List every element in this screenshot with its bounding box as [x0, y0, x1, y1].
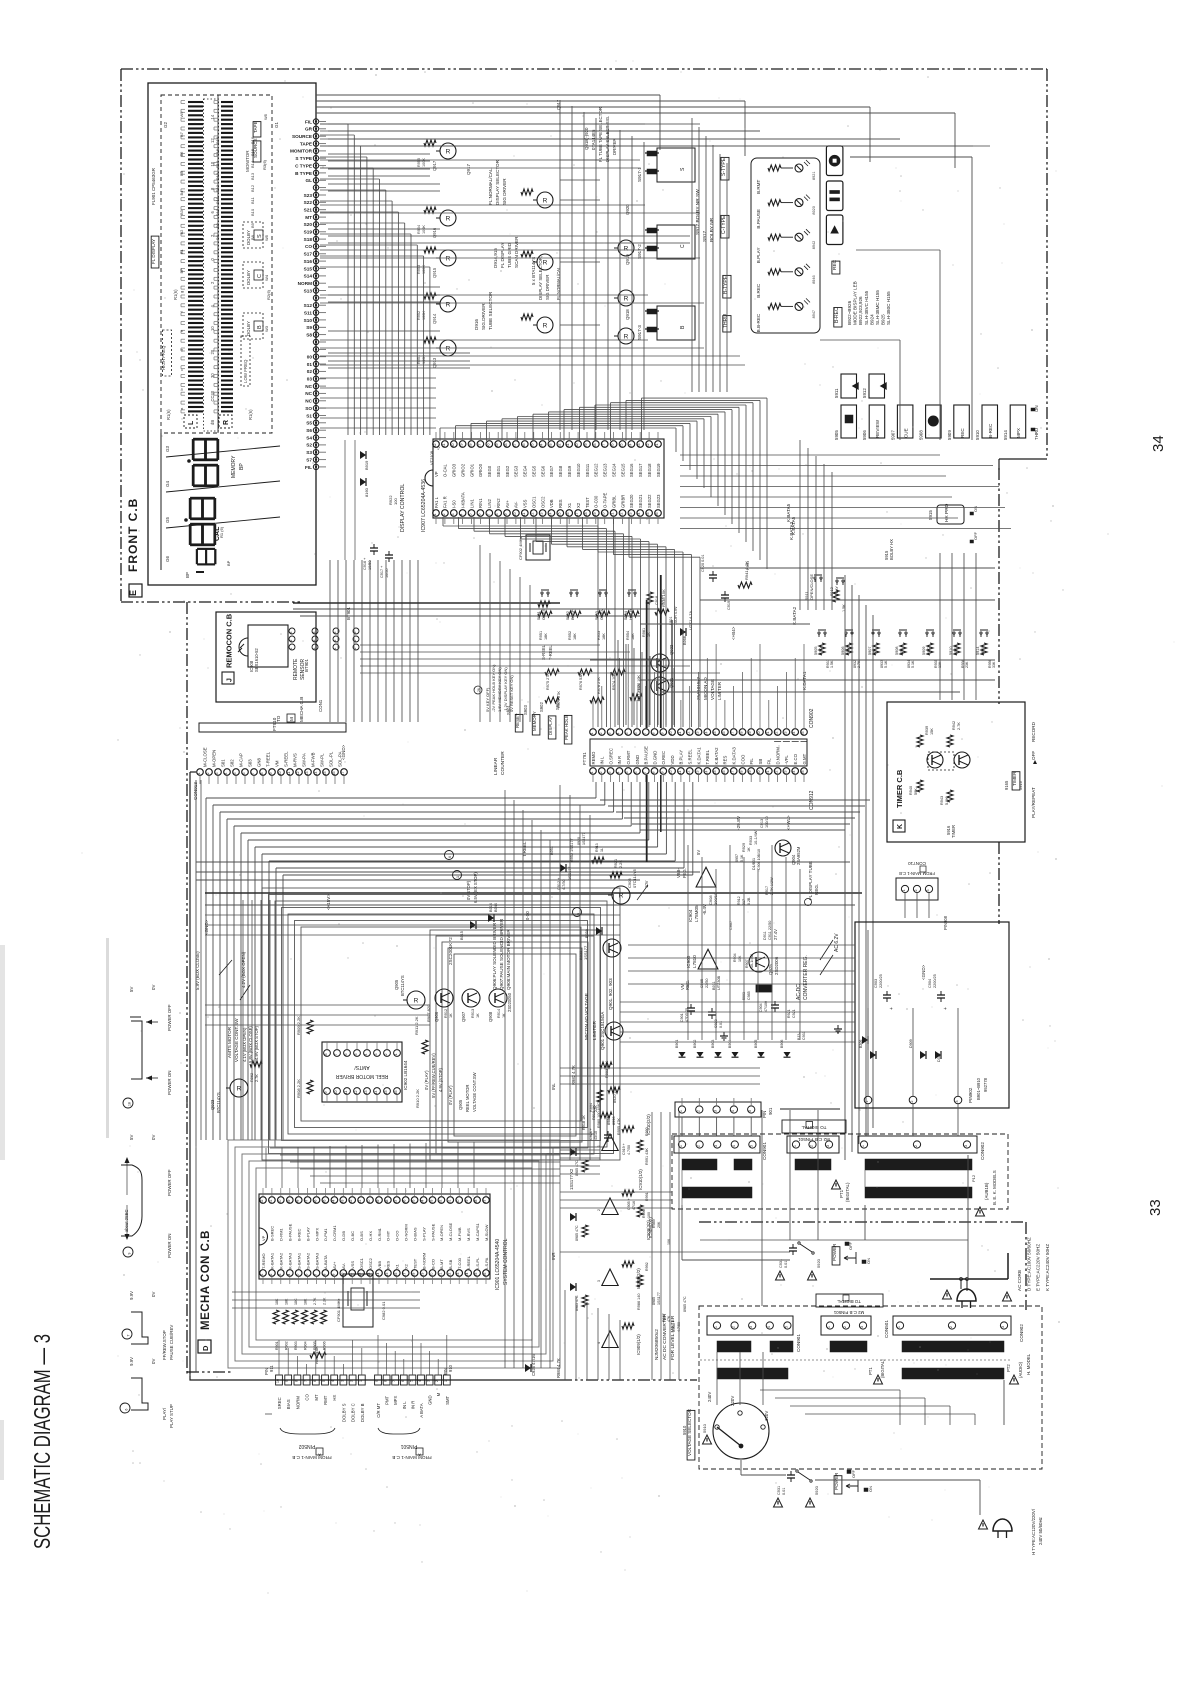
svg-text:1SS177: 1SS177 [583, 945, 588, 960]
svg-text:17: 17 [731, 732, 735, 736]
svg-text:1K: 1K [449, 1013, 453, 1018]
svg-text:23: 23 [783, 732, 787, 736]
svg-text:GND: GND [428, 1395, 433, 1405]
svg-text:D1/B01: D1/B01 [752, 858, 756, 870]
svg-text:2: 2 [206, 773, 210, 775]
svg-text:W9: W9 [179, 111, 184, 118]
svg-text:PT2: PT2 [1006, 1364, 1011, 1372]
svg-text:K.BATA2: K.BATA2 [792, 606, 797, 625]
svg-text:0.01: 0.01 [784, 1261, 788, 1268]
svg-text:M-CAPS1: M-CAPS1 [475, 1222, 480, 1241]
svg-text:R919 1K: R919 1K [592, 1105, 596, 1120]
svg-text:VSS: VSS [523, 499, 528, 508]
svg-text:R: R [624, 296, 629, 303]
svg-text:9: 9 [504, 514, 508, 516]
svg-text:3: 3 [860, 1326, 864, 1328]
svg-text:14: 14 [314, 772, 318, 776]
svg-text:2.2K: 2.2K [323, 1297, 327, 1305]
svg-text:ON: ON [868, 1486, 873, 1492]
svg-text:SIG.DRIVER: SIG.DRIVER [481, 303, 486, 330]
svg-text:R903 10K: R903 10K [605, 1061, 609, 1078]
svg-text:B906: B906 [780, 1040, 784, 1048]
svg-text:R984 4.7K: R984 4.7K [556, 1358, 561, 1378]
svg-text:8: 8 [260, 773, 264, 775]
svg-text:POWER: POWER [832, 1243, 837, 1261]
svg-text:MT: MT [314, 1394, 319, 1401]
svg-text:K.BATA3: K.BATA3 [789, 521, 794, 540]
svg-text:220V: 220V [730, 1396, 735, 1406]
svg-text:Q906:PLAY SOLENOID BRIVER: Q906:PLAY SOLENOID BRIVER [492, 922, 497, 990]
svg-text:IN L: IN L [402, 1401, 407, 1409]
svg-text:A: A [418, 1453, 421, 1458]
svg-text:SEG13: SEG13 [603, 463, 608, 477]
svg-text:46: 46 [314, 1200, 318, 1204]
svg-text:S22: S22 [304, 200, 313, 205]
svg-text:18: 18 [128, 1102, 132, 1106]
svg-text:C921: C921 [792, 1009, 796, 1018]
svg-text:5914: 5914 [1003, 430, 1008, 440]
svg-text:PLAY/: PLAY/ [162, 1407, 167, 1420]
svg-text:4: 4 [224, 773, 228, 775]
svg-text:OSC2: OSC2 [540, 496, 545, 508]
svg-text:42: 42 [349, 1200, 353, 1204]
svg-text:O-BIAS: O-BIAS [412, 1227, 417, 1241]
svg-text:1: 1 [444, 1380, 448, 1382]
svg-text:MECHA C.B: MECHA C.B [299, 697, 304, 722]
svg-text:25: 25 [646, 513, 650, 517]
svg-text:5914: 5914 [976, 647, 980, 655]
svg-text:0V: 0V [151, 1135, 156, 1140]
svg-text:S-BATA1: S-BATA1 [297, 1252, 302, 1269]
svg-text:TAPE: TAPE [300, 141, 312, 146]
svg-text:FL DISPLAY: FL DISPLAY [500, 242, 505, 268]
svg-text:M-RVS: M-RVS [466, 1228, 471, 1241]
svg-text:FROM MAIN-1 C.B: FROM MAIN-1 C.B [899, 871, 935, 876]
svg-text:G6: G6 [165, 555, 170, 562]
svg-text:VM: VM [274, 760, 279, 767]
svg-text:7: 7 [314, 1273, 318, 1275]
svg-text:1S5177: 1S5177 [582, 833, 586, 845]
svg-text:SEG23: SEG23 [656, 494, 661, 508]
svg-text:13: 13 [305, 772, 309, 776]
svg-text:R: R [543, 260, 548, 267]
svg-text:R: R [414, 998, 419, 1005]
svg-text:B.PAUSE: B.PAUSE [756, 209, 761, 229]
svg-text:SEG22: SEG22 [647, 494, 652, 508]
svg-text:11: 11 [678, 771, 682, 775]
svg-text:REC: REC [960, 428, 965, 438]
svg-text:C908 +: C908 + [672, 1320, 676, 1332]
svg-text:13: 13 [696, 771, 700, 775]
svg-text:S-TYPE: S-TYPE [721, 157, 727, 176]
svg-text:29: 29 [465, 1200, 469, 1204]
svg-text:1: 1 [861, 1145, 865, 1147]
svg-text:20: 20 [210, 349, 215, 354]
svg-text:40: 40 [367, 1200, 371, 1204]
svg-text:IC902 LB1644: IC902 LB1644 [403, 1060, 408, 1090]
svg-text:5916: 5916 [1018, 780, 1023, 790]
svg-text:18: 18 [584, 513, 588, 517]
svg-text:8920: 8920 [812, 206, 816, 214]
svg-text:2: 2 [696, 1110, 700, 1112]
svg-text:SLH-380C H155: SLH-380C H155 [886, 291, 891, 325]
svg-text:40: 40 [486, 444, 490, 448]
svg-text:S11: S11 [304, 310, 312, 315]
svg-text:2SC2001K *2: 2SC2001K *2 [448, 937, 453, 965]
svg-text:R991 43K: R991 43K [645, 1148, 649, 1165]
svg-text:S8: S8 [306, 332, 312, 337]
svg-text:DOLBY C: DOLBY C [351, 1403, 356, 1422]
svg-text:COO: COO [740, 754, 745, 764]
svg-text:BT901: BT901 [346, 607, 351, 620]
svg-text:(BIGITAL): (BIGITAL) [880, 1359, 885, 1378]
svg-text:BIAS: BIAS [286, 1399, 291, 1409]
svg-text:RIN1: RIN1 [478, 498, 483, 508]
svg-text:D310: D310 [937, 1053, 941, 1062]
svg-text:B904: B904 [728, 1040, 732, 1048]
svg-text:MODE BISPLAY LEB: MODE BISPLAY LEB [853, 281, 858, 325]
svg-text:B-SREC: B-SREC [270, 1226, 275, 1241]
svg-text:CONVERTER REG.: CONVERTER REG. [803, 955, 809, 1000]
svg-text:18K: 18K [304, 1298, 308, 1305]
svg-text:GND: GND [635, 755, 640, 765]
svg-text:B9: B9 [215, 222, 220, 228]
svg-text:3: 3 [1001, 1326, 1005, 1328]
svg-text:AMTS/: AMTS/ [354, 1064, 370, 1070]
svg-text:14: 14 [704, 771, 708, 775]
svg-text:CF901 4MHz: CF901 4MHz [336, 1298, 341, 1322]
svg-text:GRIBR: GRIBR [620, 495, 625, 508]
svg-text:4.9V (BOX STOP): 4.9V (BOX STOP) [254, 1025, 259, 1060]
svg-text:47/16: 47/16 [632, 1201, 636, 1210]
svg-text:IN R: IN R [617, 756, 622, 765]
svg-text:5912: 5912 [862, 388, 867, 398]
svg-text:CO: CO [305, 244, 312, 249]
svg-text:B16: B16 [215, 136, 220, 144]
svg-text:G.MT: G.MT [802, 753, 807, 764]
svg-text:CON902: CON902 [1019, 1324, 1024, 1342]
svg-text:SEG14: SEG14 [611, 463, 616, 477]
svg-text:2: 2 [333, 639, 337, 641]
svg-text:5: 5 [749, 1145, 753, 1147]
svg-text:0TC114Y5: 0TC114Y5 [632, 868, 637, 888]
svg-text:VDB: VDB [549, 499, 554, 508]
svg-text:2S020050: 2S020050 [507, 992, 512, 1012]
svg-text:C918: C918 [655, 596, 659, 605]
svg-text:0.01: 0.01 [782, 1488, 786, 1495]
svg-text:38: 38 [385, 1200, 389, 1204]
svg-text:DOLBY S: DOLBY S [341, 1403, 346, 1422]
svg-text:(AUDIO): (AUDIO) [1018, 1361, 1023, 1378]
svg-text:Q907: Q907 [461, 1011, 466, 1022]
svg-text:27: 27 [477, 444, 481, 448]
svg-text:S-BATA3: S-BATA3 [314, 1252, 319, 1269]
svg-text:BOLBY NR: BOLBY NR [709, 217, 715, 242]
svg-text:2: 2 [910, 1100, 914, 1102]
svg-text:S-BATA2: S-BATA2 [305, 1252, 310, 1269]
svg-text:LIMITER: LIMITER [717, 681, 722, 700]
svg-text:8985 47C: 8985 47C [575, 1225, 579, 1241]
svg-text:18K: 18K [602, 633, 606, 640]
svg-text:O-MPX: O-MPX [314, 1228, 319, 1241]
svg-text:C901: C901 [680, 1013, 684, 1022]
svg-text:1: 1 [197, 773, 201, 775]
svg-text:16: 16 [394, 1091, 398, 1095]
svg-text:R910 2.2K: R910 2.2K [415, 1089, 420, 1108]
svg-text:A BATA: A BATA [419, 1403, 424, 1418]
svg-text:1: 1 [902, 890, 906, 892]
svg-text:19: 19 [593, 513, 597, 517]
svg-text:K TYPE:AC240V 50HZ: K TYPE:AC240V 50HZ [1045, 1244, 1050, 1291]
svg-text:2: 2 [949, 1326, 953, 1328]
svg-text:1: 1 [433, 514, 437, 516]
svg-text:20: 20 [757, 771, 761, 775]
svg-text:Q917: Q917 [432, 160, 437, 171]
svg-text:Q901. 902. 903: Q901. 902. 903 [608, 978, 613, 1010]
svg-text:R951: R951 [539, 631, 543, 640]
svg-text:12: 12 [354, 1091, 358, 1095]
svg-text:12: 12 [531, 513, 535, 517]
svg-text:<+B4>: <+B4> [731, 626, 736, 640]
svg-text:36: 36 [403, 1200, 407, 1204]
svg-text:SMT: SMT [445, 1395, 450, 1404]
svg-text:M-SLOW: M-SLOW [484, 1224, 489, 1241]
svg-text:SCAN DRIVER: SCAN DRIVER [514, 236, 519, 268]
svg-text:8985 47C: 8985 47C [683, 1296, 687, 1312]
svg-text:R986 140: R986 140 [637, 1294, 641, 1310]
svg-text:47/100: 47/100 [764, 1001, 768, 1012]
svg-text:8: 8 [652, 733, 656, 735]
svg-text:B TYPE: B TYPE [295, 171, 312, 176]
svg-text:IN R: IN R [410, 1401, 415, 1410]
svg-text:8160: 8160 [364, 487, 369, 497]
svg-text:-2V PEAK HOLB KEY ON): -2V PEAK HOLB KEY ON) [491, 664, 496, 712]
svg-text:5: 5 [296, 1273, 300, 1275]
svg-text:952778: 952778 [983, 1077, 988, 1092]
svg-text:100: 100 [393, 498, 398, 505]
svg-text:O.SREC: O.SREC [608, 748, 613, 764]
svg-text:CON710: CON710 [908, 861, 926, 866]
svg-text:+: + [943, 1007, 949, 1010]
svg-text:12: 12 [687, 732, 691, 736]
svg-text:Q913: Q913 [432, 357, 437, 368]
svg-text:LIN2: LIN2 [487, 498, 492, 508]
svg-text:CUE: CUE [903, 428, 908, 438]
svg-text:about 2SEC: about 2SEC [124, 1209, 129, 1232]
svg-text:5V: 5V [696, 850, 701, 855]
svg-text:B901~B910: B901~B910 [976, 1077, 981, 1100]
svg-text:11: 11 [678, 732, 682, 736]
svg-text:I-REEL: I-REEL [466, 1255, 471, 1269]
svg-text:B968: B968 [683, 636, 687, 645]
svg-text:NORM: NORM [298, 281, 312, 286]
svg-text:59K: 59K [914, 788, 918, 795]
svg-text:REMOCON C.B: REMOCON C.B [225, 613, 234, 668]
svg-text:MONITOR: MONITOR [245, 150, 250, 172]
svg-text:18K: 18K [573, 633, 577, 640]
svg-text:28: 28 [469, 444, 473, 448]
svg-text:3: 3 [333, 631, 337, 633]
svg-text:2: 2 [289, 639, 293, 641]
svg-text:C TYPE: C TYPE [295, 163, 312, 168]
svg-text:S23: S23 [304, 193, 313, 198]
svg-text:FRONT C.B: FRONT C.B [126, 498, 140, 572]
svg-text:22: 22 [775, 771, 779, 775]
svg-text:00: 00 [307, 355, 313, 360]
svg-text:TUBE GRID: TUBE GRID [507, 242, 512, 268]
svg-text:S21: S21 [304, 208, 313, 213]
svg-text:BP: BP [179, 268, 184, 274]
svg-text:S-PLAY: S-PLAY [421, 1227, 426, 1241]
svg-text:5908: 5908 [919, 430, 924, 440]
svg-text:FA1 L: FA1 L [434, 496, 439, 508]
svg-text:43: 43 [340, 1200, 344, 1204]
svg-text:LIMITER: LIMITER [592, 1021, 598, 1040]
svg-text:18K: 18K [285, 1298, 289, 1305]
svg-text:R1(6): R1(6) [166, 409, 171, 420]
svg-text:S12: S12 [304, 303, 313, 308]
svg-text:8996: 8996 [612, 1117, 616, 1125]
svg-text:2: 2 [697, 1145, 701, 1147]
svg-text:9165: 9165 [1004, 780, 1009, 790]
svg-text:c: c [179, 369, 184, 371]
svg-text:OFF: OFF [1031, 751, 1036, 760]
svg-text:O-C00: O-C00 [594, 495, 599, 508]
svg-text:2.7K: 2.7K [313, 1297, 317, 1305]
svg-text:M-CLOSE: M-CLOSE [448, 1222, 453, 1241]
svg-text:B10: B10 [215, 208, 220, 216]
svg-text:PIN502: PIN502 [298, 1443, 315, 1449]
svg-text:27: 27 [602, 444, 606, 448]
svg-text:SEG18: SEG18 [647, 463, 652, 477]
svg-text:SEG2: SEG2 [505, 465, 510, 477]
svg-text:M-FWB: M-FWB [310, 752, 315, 767]
svg-text:1: 1 [260, 1273, 264, 1275]
svg-text:MECHA CON C.B: MECHA CON C.B [200, 1230, 212, 1330]
svg-text:8: 8 [322, 1273, 326, 1275]
svg-text:44: 44 [331, 1200, 335, 1204]
svg-text:31: 31 [442, 444, 446, 448]
svg-text:3: 3 [427, 1380, 431, 1382]
svg-text:R2(6): R2(6) [266, 289, 271, 300]
svg-text:SOURCE: SOURCE [292, 134, 312, 139]
svg-text:R: R [446, 302, 451, 309]
svg-text:22/50: 22/50 [705, 978, 709, 988]
svg-text:17: 17 [575, 513, 579, 517]
svg-text:26: 26 [483, 1273, 487, 1277]
svg-text:SEG6: SEG6 [540, 465, 545, 477]
svg-text:PIN: PIN [762, 1111, 767, 1118]
svg-text:1.5K: 1.5K [830, 660, 834, 668]
svg-text:5V (FF/REW,CUE/REV): 5V (FF/REW,CUE/REV) [431, 1053, 436, 1098]
svg-text:21: 21 [766, 771, 770, 775]
svg-text:K.DATA1: K.DATA1 [696, 747, 701, 765]
svg-text:FL DISPLAY TUBE: FL DISPLAY TUBE [808, 861, 813, 900]
svg-text:VDD: VDD [670, 755, 675, 764]
svg-text:FROM MAIN-1 C.B: FROM MAIN-1 C.B [292, 1455, 331, 1460]
svg-text:8921: 8921 [812, 172, 816, 180]
svg-text:2SD2006: 2SD2006 [774, 956, 779, 975]
svg-text:R: R [223, 420, 230, 425]
svg-text:DISPLAY CONTROL: DISPLAY CONTROL [400, 484, 406, 532]
svg-text:SEG5: SEG5 [532, 465, 537, 477]
svg-text:0TA144E5: 0TA144E5 [591, 129, 596, 150]
svg-text:34: 34 [540, 444, 544, 448]
svg-text:VT2108: VT2108 [429, 450, 434, 465]
svg-text:I-S.PA: I-S.PA [484, 1257, 489, 1269]
svg-text:CON913: CON913 [193, 782, 198, 800]
svg-text:B.PLAY: B.PLAY [679, 750, 684, 765]
svg-text:9: 9 [660, 733, 664, 735]
svg-text:B915: B915 [460, 931, 464, 940]
svg-text:S917-2: S917-2 [637, 244, 642, 259]
svg-text:5910: 5910 [702, 1423, 707, 1433]
svg-text:BP: BP [226, 560, 231, 566]
svg-text:10: 10 [669, 771, 673, 775]
svg-text:Q905: Q905 [458, 1099, 463, 1110]
svg-text:1: 1 [865, 1100, 869, 1102]
svg-text:C919 +: C919 + [622, 1143, 626, 1155]
svg-text:IC905: IC905 [686, 955, 691, 968]
svg-text:B-PLAY: B-PLAY [305, 1227, 310, 1241]
svg-text:15: 15 [713, 732, 717, 736]
svg-text:B5: B5 [179, 170, 184, 176]
svg-text:9.9V: 9.9V [129, 1291, 134, 1300]
svg-text:R911 2.2K: R911 2.2K [414, 1016, 419, 1035]
svg-text:GR: GR [305, 127, 313, 132]
svg-text:8: 8 [324, 1054, 328, 1056]
svg-text:13: 13 [540, 513, 544, 517]
svg-text:5907: 5907 [890, 430, 895, 440]
svg-text:R901: R901 [275, 1341, 279, 1350]
svg-text:IC901 LC65204A-4540: IC901 LC65204A-4540 [495, 1239, 501, 1290]
svg-text:18: 18 [740, 732, 744, 736]
svg-text:B-NORM: B-NORM [421, 1253, 426, 1269]
svg-text:OSC1: OSC1 [359, 1257, 364, 1269]
svg-text:Q915: Q915 [432, 267, 437, 278]
svg-text:21: 21 [655, 444, 659, 448]
svg-text:29: 29 [584, 444, 588, 448]
svg-text:FROM MAIN-1 C.B: FROM MAIN-1 C.B [392, 1455, 431, 1460]
svg-text:ON: ON [1034, 405, 1039, 412]
svg-text:B.B-REC: B.B-REC [756, 313, 761, 332]
svg-text:AC CORB: AC CORB [1017, 1270, 1022, 1291]
svg-text:S6: S6 [306, 428, 312, 433]
svg-text:K.DATA1: K.DATA1 [802, 671, 807, 690]
svg-text:P12: P12 [971, 1174, 976, 1182]
svg-text:2.7K: 2.7K [255, 1074, 259, 1082]
svg-text:B14: B14 [215, 160, 220, 168]
svg-text:B11: B11 [215, 196, 220, 204]
svg-text:GRIO3: GRIO3 [452, 463, 457, 477]
svg-text:S917-1: S917-1 [637, 167, 642, 182]
svg-text:47: 47 [305, 1200, 309, 1204]
svg-text:SB: SB [758, 759, 763, 765]
svg-text:R: R [543, 323, 548, 330]
svg-text:1: 1 [394, 1054, 398, 1056]
svg-text:4: 4 [616, 733, 620, 735]
svg-text:R906: R906 [323, 1341, 327, 1350]
svg-text:Q901 2SC1815GA: Q901 2SC1815GA [600, 1011, 605, 1050]
svg-text:B14: B14 [250, 160, 255, 168]
svg-text:M-FWB: M-FWB [457, 1227, 462, 1241]
svg-text:C931: C931 [802, 1031, 806, 1040]
svg-text:S903: S903 [523, 705, 528, 715]
svg-text:1SS177: 1SS177 [657, 1292, 661, 1305]
svg-text:16: 16 [394, 1273, 398, 1277]
svg-text:27: 27 [483, 1200, 487, 1204]
svg-text:1K: 1K [747, 847, 751, 852]
